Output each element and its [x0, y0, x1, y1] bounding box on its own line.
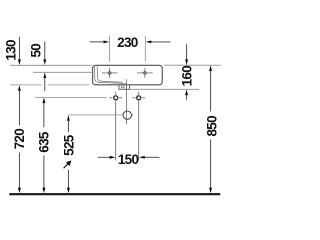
floor line — [9, 193, 220, 195]
160 dim up arrow — [186, 95, 188, 100]
reference line tab bottom right (L7) — [130, 88, 200, 90]
svg-text:230: 230 — [117, 35, 138, 50]
drain outlet circle — [123, 111, 131, 119]
mounting hole right — [132, 92, 145, 161]
basin bowl wall and bottom upper edge — [97, 66, 123, 82]
reference line rim right (L6) — [164, 64, 220, 66]
230 dim left arrow — [90, 41, 105, 43]
drain outlet right tick — [132, 114, 134, 116]
svg-text:850: 850 — [204, 116, 219, 137]
svg-text:50: 50 — [29, 44, 44, 58]
160 dim down arrow — [186, 44, 188, 60]
50 dim down arrow — [44, 42, 46, 61]
tap hole crosshair 2 — [137, 68, 153, 78]
svg-text:150: 150 — [118, 152, 139, 167]
drain tab inner notch — [121, 85, 124, 88]
reference line basin bottom left (L3a) — [10, 84, 42, 86]
230 dim right arrow — [151, 41, 171, 43]
reference line basin bottom left (L3b) — [48, 84, 90, 86]
525 oblique arrow — [64, 162, 70, 168]
reference line rim left (L1) — [10, 64, 91, 66]
850 dim line — [209, 65, 212, 71]
150 dim right arrow — [144, 156, 159, 158]
svg-text:525: 525 — [62, 134, 77, 156]
reference line drain level (L5) — [68, 114, 123, 116]
150 dim left arrow — [98, 156, 110, 158]
basin outer body (side view rounded rect) — [93, 65, 163, 85]
basin inner rim line left — [95, 66, 101, 82]
svg-text:635: 635 — [36, 131, 51, 153]
drain tab below basin outer — [119, 85, 130, 89]
50 dim up arrow (below L2) — [44, 78, 46, 92]
mounting hole left — [109, 92, 122, 161]
230 dim extension tick right — [144, 36, 146, 62]
tap hole crosshair 1 — [102, 68, 118, 78]
basin bowl bottom lower edge — [99, 82, 126, 83]
svg-text:720: 720 — [12, 129, 27, 150]
svg-text:160: 160 — [180, 66, 195, 87]
130 dim down arrow — [18, 37, 20, 60]
svg-text:130: 130 — [4, 40, 19, 61]
525 dim line — [67, 115, 70, 121]
230 dim extension tick left — [109, 36, 111, 62]
reference line mounting holes left (L4) — [35, 96, 107, 98]
reference line tap-hole level left (L2) — [33, 71, 92, 73]
635 dim line — [43, 98, 46, 104]
drain centerline vertical — [126, 79, 128, 124]
720 dim line with 130 shared arrow — [18, 85, 21, 91]
